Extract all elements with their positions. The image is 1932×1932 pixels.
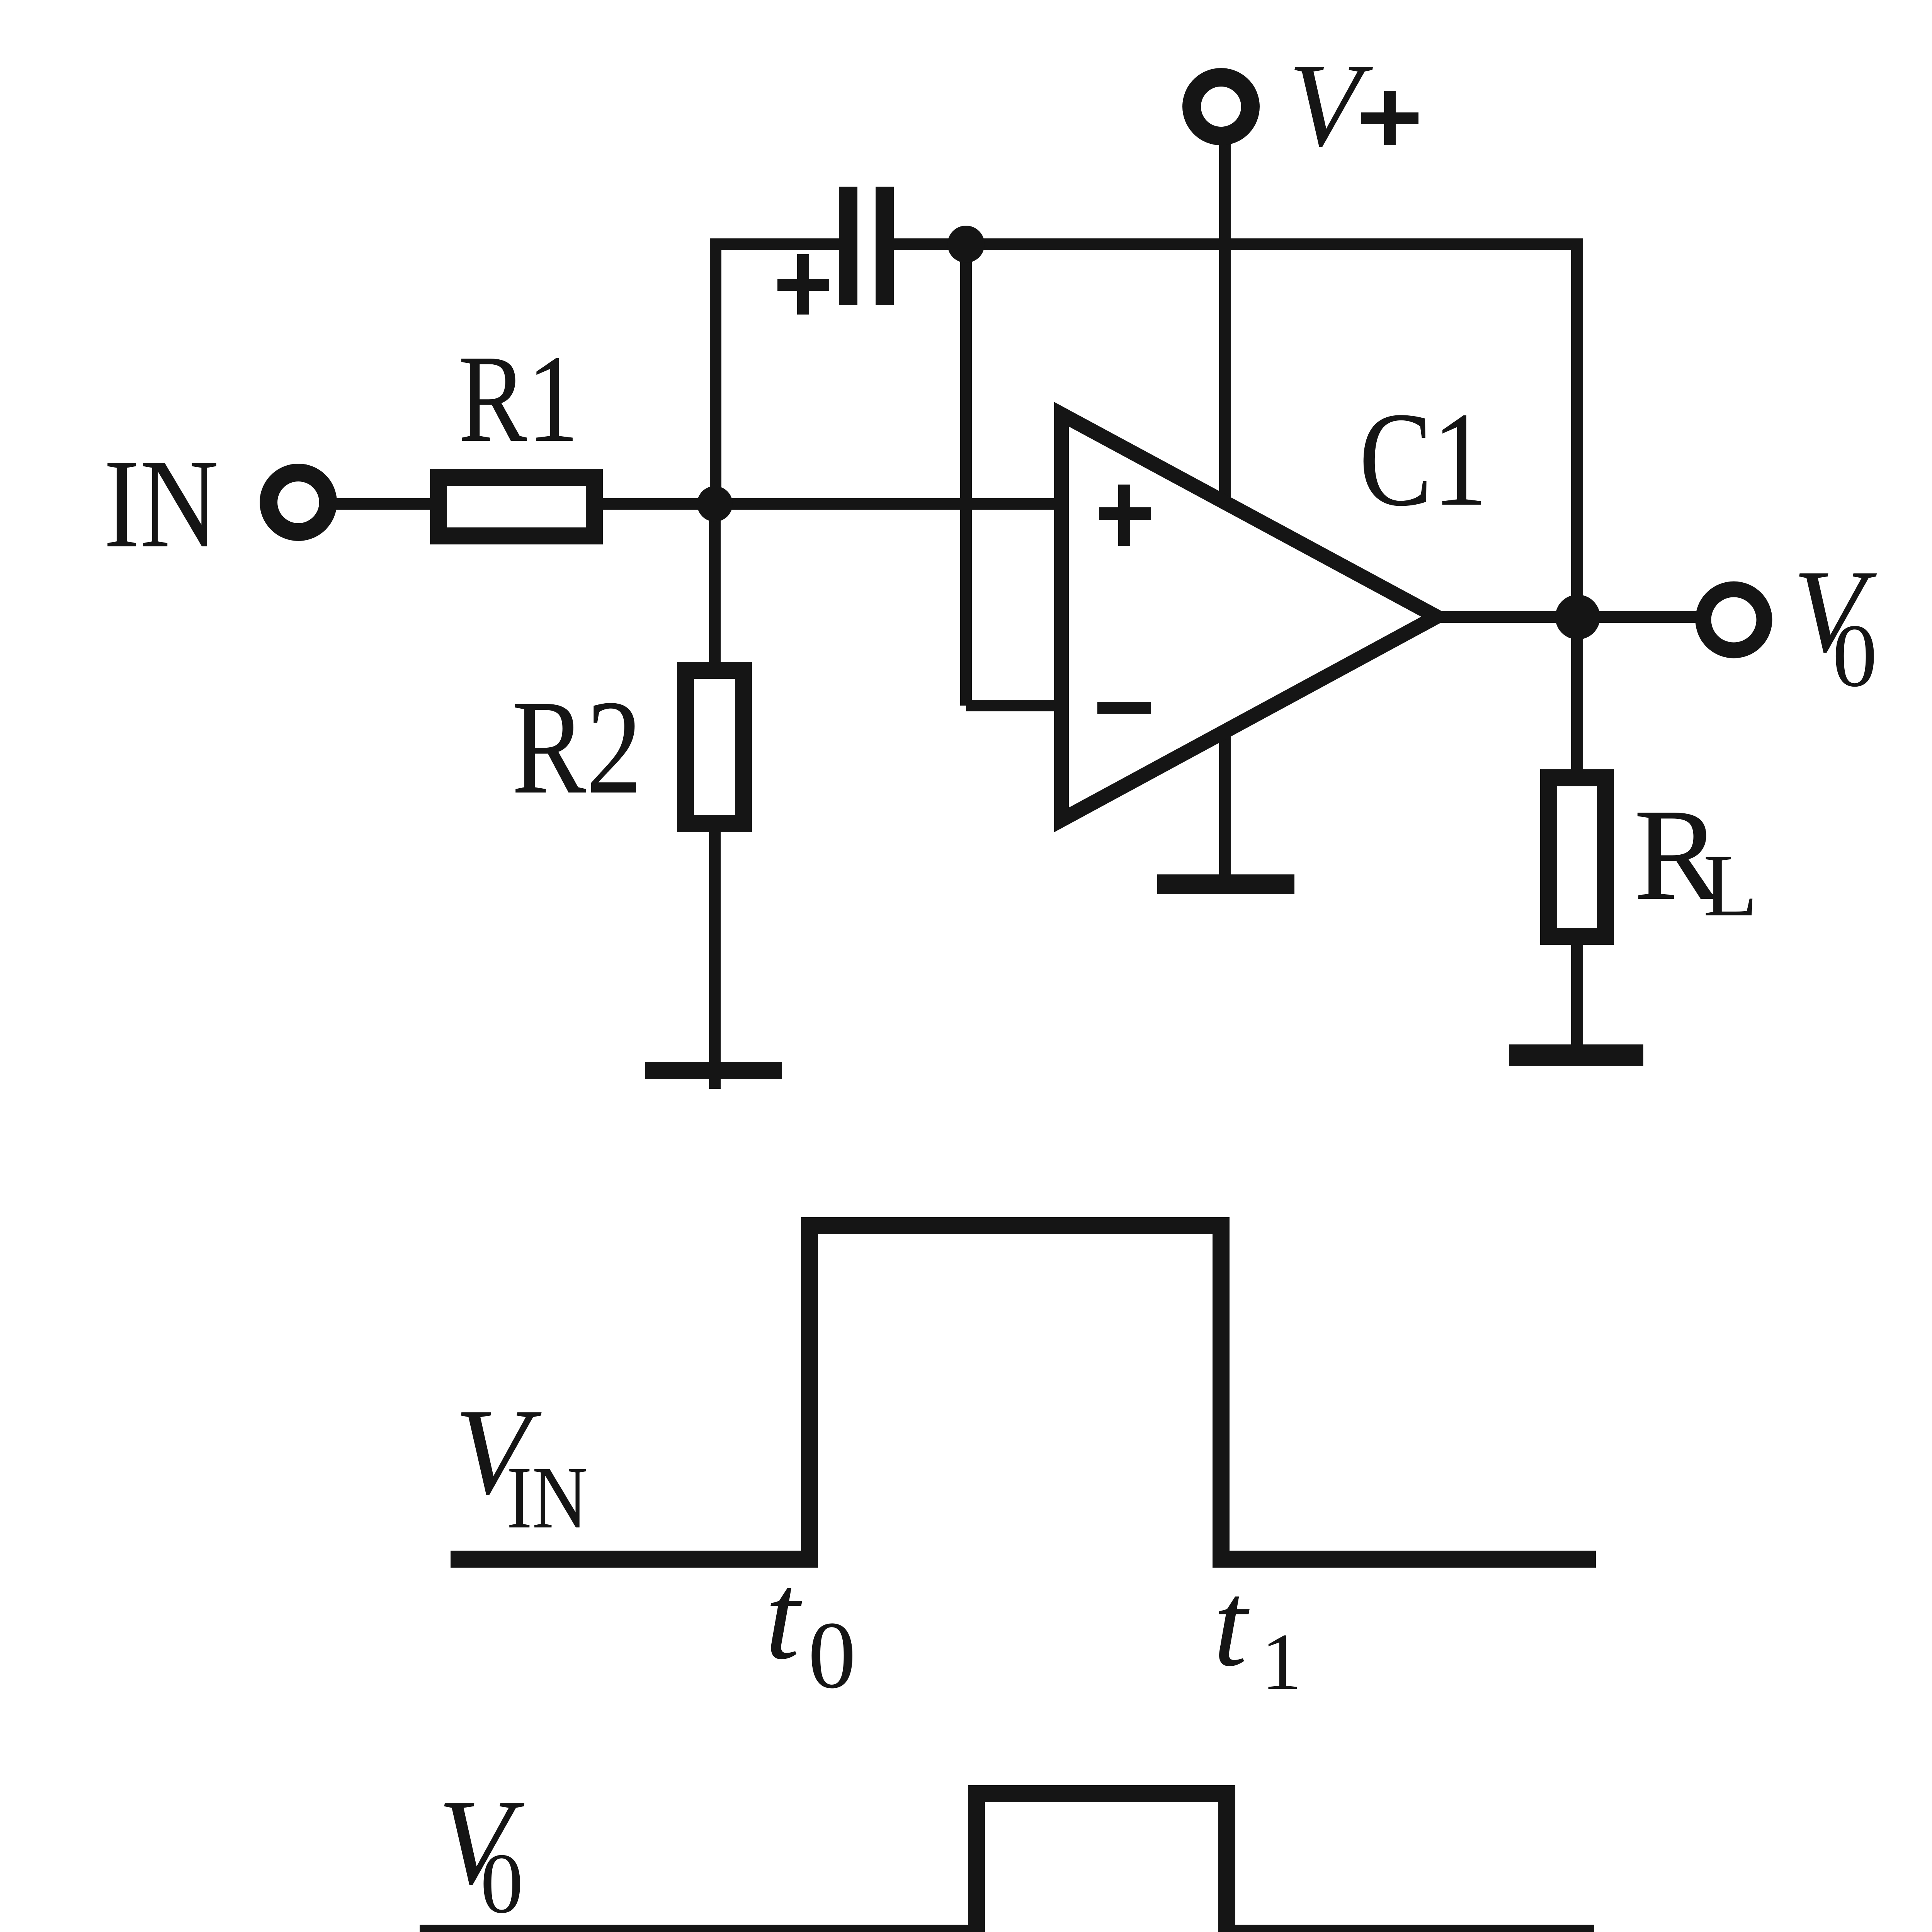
svg-text:V: V bbox=[1288, 39, 1374, 172]
junction output node dot bbox=[1555, 595, 1600, 639]
wire inverting-node vertical (top junction down to - input) bbox=[960, 238, 972, 706]
junction dot C1 to inverting input bbox=[947, 226, 985, 263]
wire feedback left vertical (node A up to top wire) bbox=[710, 238, 721, 504]
svg-text:t: t bbox=[765, 1547, 804, 1685]
svg-text:R1: R1 bbox=[458, 329, 579, 468]
svg-text:L: L bbox=[1703, 836, 1758, 935]
svg-text:IN: IN bbox=[104, 433, 219, 574]
resistor R2 body bbox=[685, 670, 743, 824]
capacitor C1 right plate bbox=[876, 187, 894, 305]
op-amp - input symbol bbox=[1097, 702, 1151, 714]
wire output node down through RL to ground bbox=[1571, 617, 1583, 1047]
svg-text:0: 0 bbox=[808, 1602, 856, 1708]
terminal V+ circle bbox=[1192, 77, 1250, 136]
svg-text:0: 0 bbox=[1832, 606, 1878, 706]
svg-text:C1: C1 bbox=[1359, 384, 1488, 534]
op-amp + input symbol bbox=[1099, 507, 1151, 520]
wire input horizontal (IN terminal to op-amp + input) bbox=[330, 498, 1063, 510]
op-amp U1 triangle bbox=[1061, 414, 1437, 820]
ground under R2 bbox=[645, 1062, 782, 1079]
label V+ : plus sign bbox=[1361, 112, 1418, 124]
wire V+ supply vertical (through op-amp to ground pin) bbox=[1219, 142, 1231, 880]
capacitor C1 left plate bbox=[839, 187, 857, 305]
svg-text:R2: R2 bbox=[512, 672, 642, 822]
wire - input horizontal bbox=[966, 700, 1063, 711]
wire top-left segment (node A to C1 left plate) bbox=[716, 238, 842, 250]
wire top-right segment (C1 right plate to right corner) bbox=[889, 238, 1577, 250]
capacitor C1 polarity plus sign bbox=[777, 279, 829, 291]
wire output horizontal (op-amp apex to V0 terminal) bbox=[1430, 611, 1698, 623]
resistor R1 body bbox=[439, 477, 594, 536]
svg-text:1: 1 bbox=[1261, 1617, 1302, 1707]
wire right vertical (top wire corner down to output node) bbox=[1571, 238, 1583, 617]
ground under RL bbox=[1509, 1044, 1643, 1066]
waveform VIN pulse bbox=[451, 1226, 1596, 1559]
resistor RL body bbox=[1549, 778, 1605, 936]
junction node A dot (R1/R2/feedback) bbox=[697, 486, 733, 522]
waveform V0 pulse bbox=[420, 1794, 1594, 1932]
terminal IN circle bbox=[269, 473, 328, 532]
svg-text:t: t bbox=[1213, 1557, 1251, 1692]
wire node A down through R2 to ground bbox=[709, 504, 721, 1089]
svg-text:IN: IN bbox=[507, 1448, 588, 1547]
svg-text:0: 0 bbox=[480, 1836, 524, 1931]
terminal V0 circle bbox=[1703, 589, 1764, 650]
ground under op-amp bbox=[1157, 874, 1294, 894]
